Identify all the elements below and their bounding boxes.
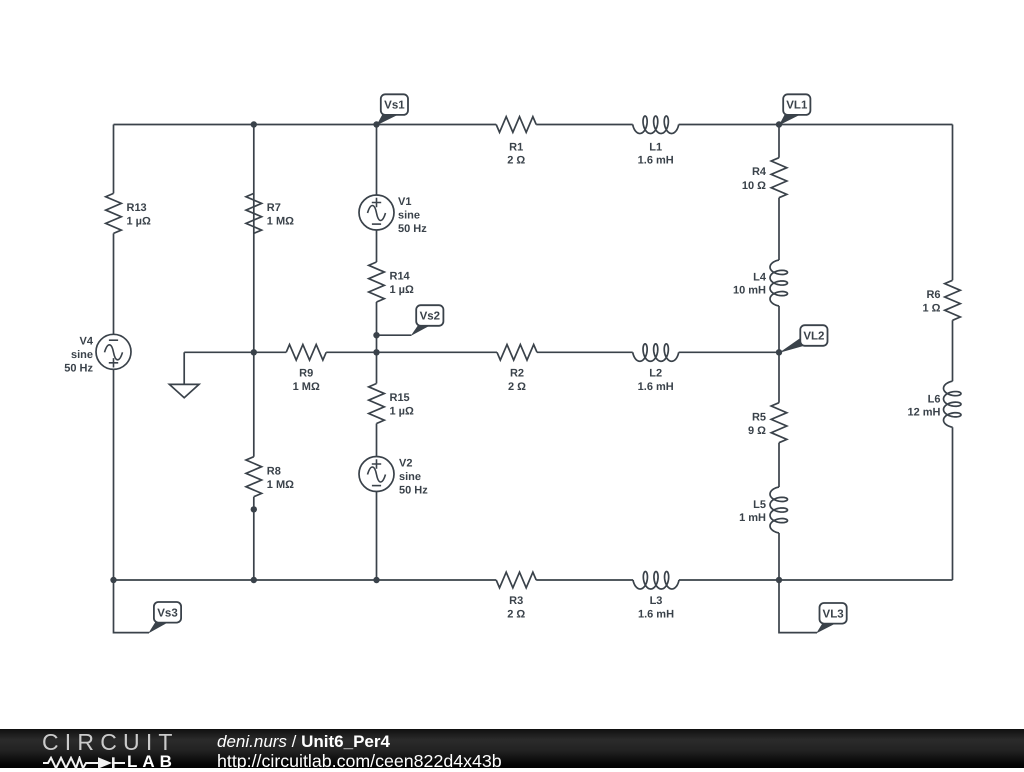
wire top rail mid (536, 124, 633, 126)
wire column3 R15-V2 (376, 424, 378, 457)
wire VL3 tap (779, 580, 817, 633)
svg-text:R7: R7 (267, 202, 281, 214)
svg-text:1 MΩ: 1 MΩ (293, 381, 320, 393)
svg-text:1 µΩ: 1 µΩ (390, 406, 415, 418)
svg-text:L3: L3 (650, 595, 663, 607)
wire column2 lower (253, 497, 255, 580)
node bottom rail col3 (373, 577, 379, 583)
node Vs2 tap (373, 332, 379, 338)
resistor R7 1 MΩ (246, 193, 294, 233)
wire middle rail R2-L2 (537, 351, 633, 353)
node middle rail col3 (373, 349, 379, 355)
node top rail col2 (251, 121, 257, 127)
svg-text:Vs3: Vs3 (157, 607, 177, 619)
svg-text:12 mH: 12 mH (907, 406, 940, 418)
wire column3 top lead (376, 125, 378, 196)
svg-text:sine: sine (71, 349, 93, 361)
node middle rail col2 (251, 349, 257, 355)
svg-text:2 Ω: 2 Ω (508, 381, 526, 393)
svg-text:Vs2: Vs2 (420, 311, 440, 323)
node below R8 (251, 506, 257, 512)
svg-text:L4: L4 (753, 272, 767, 284)
svg-text:1 µΩ: 1 µΩ (390, 284, 415, 296)
resistor R13 1 µΩ (106, 193, 151, 233)
svg-text:sine: sine (398, 210, 420, 222)
ground (169, 352, 199, 397)
wire top rail (114, 124, 497, 126)
svg-text:1 mH: 1 mH (739, 512, 766, 524)
svg-text:1 Ω: 1 Ω (923, 303, 941, 315)
svg-text:V4: V4 (80, 335, 94, 347)
svg-text:Vs1: Vs1 (384, 100, 405, 112)
svg-text:1.6 mH: 1.6 mH (638, 381, 674, 393)
svg-text:VL3: VL3 (823, 608, 844, 620)
wire column4 top lead (778, 125, 780, 158)
node VL2 (776, 349, 782, 355)
wire column4 R4-L4 (778, 198, 780, 260)
svg-text:1 µΩ: 1 µΩ (127, 216, 152, 228)
svg-text:R3: R3 (509, 595, 523, 607)
net flag Vs1 (377, 94, 409, 125)
wire column4 R5-L5 (778, 443, 780, 487)
svg-text:1 MΩ: 1 MΩ (267, 479, 294, 491)
svg-text:9 Ω: 9 Ω (748, 425, 766, 437)
svg-text:R15: R15 (390, 392, 410, 404)
node Vs1 (373, 121, 379, 127)
svg-text:V1: V1 (398, 196, 411, 208)
svg-text:1 MΩ: 1 MΩ (267, 216, 294, 228)
net flag VL2 (779, 325, 828, 353)
net flag VL3 (816, 603, 847, 633)
svg-text:2 Ω: 2 Ω (507, 609, 525, 621)
node bottom rail col2 (251, 577, 257, 583)
svg-text:R5: R5 (752, 411, 766, 423)
wire column2 upper (253, 125, 255, 457)
wire column4 L4-VL2 (778, 306, 780, 403)
wire left column mid (113, 233, 115, 334)
voltage source V4 sine 50 Hz (64, 334, 131, 374)
resistor R9 1 MΩ (286, 345, 326, 394)
net flag Vs2 (411, 305, 444, 336)
wire bottom rail mid (536, 579, 633, 581)
wire column5 lower (952, 427, 954, 580)
wire left column upper (113, 125, 115, 194)
svg-text:V2: V2 (399, 458, 412, 470)
resistor R1 2 Ω (496, 117, 536, 167)
svg-text:50 Hz: 50 Hz (398, 223, 427, 235)
inductor L1 1.6 mH (633, 116, 679, 167)
wire column5 mid (952, 320, 954, 381)
resistor R3 2 Ω (496, 572, 536, 620)
wire column3 V2-bottom (376, 492, 378, 581)
svg-text:R2: R2 (510, 367, 524, 379)
resistor R6 1 Ω (923, 280, 961, 320)
svg-text:VL1: VL1 (786, 100, 808, 112)
svg-text:L6: L6 (928, 393, 941, 405)
footer title (217, 728, 777, 730)
resistor R4 10 Ω (742, 158, 787, 198)
svg-text:L5: L5 (753, 499, 766, 511)
svg-text:R6: R6 (926, 289, 940, 301)
wire left column lower (113, 369, 115, 580)
node VL1 (776, 121, 782, 127)
svg-text:R1: R1 (509, 142, 523, 154)
resistor R8 1 MΩ (246, 457, 294, 497)
svg-text:L2: L2 (649, 367, 662, 379)
net flag Vs3 (148, 602, 181, 633)
net flag VL1 (779, 94, 810, 125)
resistor R14 1 µΩ (369, 262, 414, 302)
svg-text:R14: R14 (390, 271, 411, 283)
svg-text:R4: R4 (752, 166, 767, 178)
inductor L6 12 mH (907, 381, 961, 427)
node VL3 (776, 577, 782, 583)
svg-text:50 Hz: 50 Hz (64, 362, 93, 374)
svg-text:R9: R9 (299, 367, 313, 379)
wire middle rail L2-VL2 (679, 351, 779, 353)
wire middle rail R9-R2 (326, 351, 497, 353)
svg-text:VL2: VL2 (803, 331, 824, 343)
wire middle rail left (184, 351, 286, 353)
node bottom rail left (110, 577, 116, 583)
wire top rail right (679, 124, 953, 126)
wire column3 R14-R15 (376, 302, 378, 384)
svg-text:10 Ω: 10 Ω (742, 180, 766, 192)
svg-text:1.6 mH: 1.6 mH (638, 155, 674, 167)
wire column3 V1-R14 (376, 230, 378, 262)
svg-text:10 mH: 10 mH (733, 284, 766, 296)
wire Vs3 tap (114, 580, 150, 633)
svg-text:R13: R13 (127, 202, 147, 214)
svg-text:1.6 mH: 1.6 mH (638, 609, 674, 621)
svg-text:L1: L1 (649, 142, 662, 154)
inductor L5 1 mH (739, 487, 787, 533)
svg-text:sine: sine (399, 471, 421, 483)
wire bottom rail left (114, 579, 497, 581)
resistor R15 1 µΩ (369, 384, 414, 424)
wire Vs2 stub (377, 334, 412, 336)
CircuitLab logo (40, 732, 240, 768)
svg-text:R8: R8 (267, 465, 281, 477)
inductor L4 10 mH (733, 260, 788, 306)
svg-text:50 Hz: 50 Hz (399, 485, 428, 497)
inductor L2 1.6 mH (633, 344, 679, 393)
resistor R2 2 Ω (497, 345, 537, 394)
voltage source V2 sine 50 Hz (359, 457, 428, 497)
wire column5 upper (952, 125, 954, 281)
inductor L3 1.6 mH (633, 572, 679, 621)
svg-text:2 Ω: 2 Ω (507, 155, 525, 167)
resistor R5 9 Ω (748, 403, 787, 443)
wire bottom rail right (679, 579, 953, 581)
wire column4 L5-bottom (778, 533, 780, 580)
voltage source V1 sine 50 Hz (359, 195, 427, 235)
